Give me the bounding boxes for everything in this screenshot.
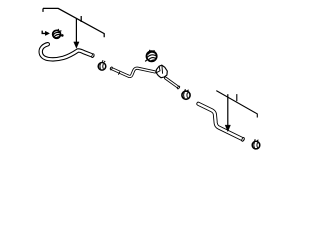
clamp C4 [252, 139, 260, 149]
leader arrow A3 (to right hose) [225, 94, 230, 131]
callout bracket B2 (right) [216, 91, 257, 118]
clamp C1 [53, 29, 64, 38]
callout bracket B1 (top left) [43, 8, 104, 37]
pipe P2 (outlet pipe from fitting) [166, 78, 180, 89]
bent arrow A2 (to clamp C1) [42, 31, 49, 36]
pipe P1 joint mark [118, 72, 119, 75]
pipe P1 end cap [110, 67, 113, 71]
hose H1 (left hose) [41, 44, 95, 59]
pipe P2 end cap [177, 86, 180, 90]
clamp C5 (loose clamp above pipe) [145, 50, 157, 62]
hose H1 end cap [91, 54, 94, 58]
pipe P1 (metal line, left section) [110, 67, 155, 77]
clamp C3 [182, 89, 190, 99]
clamp C2 [98, 60, 106, 70]
hose H2 (right hose) [198, 104, 244, 142]
hose H2 end cap [241, 137, 245, 141]
fitting F1 (connector on pipe) [156, 65, 167, 78]
leader arrow A1 (to left hose) [74, 19, 79, 49]
